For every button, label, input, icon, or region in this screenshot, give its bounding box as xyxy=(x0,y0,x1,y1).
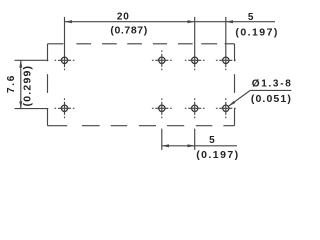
extension line below hole B3 xyxy=(194,129,196,150)
hole A1 circle xyxy=(61,57,67,63)
hole B2 vertical centerline xyxy=(161,102,163,115)
svg-text:7.6: 7.6 xyxy=(6,74,17,93)
hole B1 circle xyxy=(61,105,67,111)
extension line col4 (through hole A4) xyxy=(225,17,227,67)
svg-text:5: 5 xyxy=(248,12,254,23)
hole B1 horizontal centerline xyxy=(58,107,71,109)
svg-text:5: 5 xyxy=(209,135,215,146)
hole B3 horizontal centerline xyxy=(188,107,201,109)
hole A3 vertical centerline xyxy=(194,69,196,71)
hole A1 vertical centerline xyxy=(64,69,66,71)
svg-text:20: 20 xyxy=(117,12,130,23)
hole B4 vertical centerline xyxy=(225,102,227,115)
arrow 20-right / 5-left xyxy=(188,20,195,23)
extension line row2 left xyxy=(15,108,49,110)
dimension line 5/(0.197) bottom xyxy=(162,145,237,147)
arrow bottom-5-right xyxy=(188,144,195,147)
extension line below hole B2 xyxy=(161,129,163,150)
hole B3 circle xyxy=(192,105,198,111)
svg-text:(0.197): (0.197) xyxy=(235,26,278,38)
relay outline (dashed rectangle) top edge xyxy=(48,43,64,45)
hole A4 vertical centerline xyxy=(225,69,227,71)
relay outline right edge xyxy=(234,44,236,62)
hole A2 vertical centerline xyxy=(161,54,163,67)
svg-text:(0.197): (0.197) xyxy=(196,149,239,161)
svg-text:(0.787): (0.787) xyxy=(110,25,147,37)
dimension line 7.6/(0.299) left xyxy=(20,60,22,108)
leader underline xyxy=(250,89,291,91)
hole B2 circle xyxy=(159,105,165,111)
arrow 5-right (outside) xyxy=(226,20,233,23)
hole A2 circle xyxy=(159,57,165,63)
hole B1 vertical centerline xyxy=(64,102,66,115)
hole B3 vertical centerline xyxy=(194,102,196,115)
leader arrowhead at hole B4 xyxy=(228,101,235,107)
svg-text:Ø1.3-8: Ø1.3-8 xyxy=(252,78,293,89)
leader line for hole diameter callout xyxy=(228,90,250,106)
hole B4 circle xyxy=(223,105,229,111)
svg-text:(0.051): (0.051) xyxy=(251,93,292,105)
svg-text:(0.299): (0.299) xyxy=(22,65,34,107)
hole A2 horizontal centerline xyxy=(155,59,168,61)
arrow 7.6-top xyxy=(19,60,22,67)
hole A4 horizontal centerline xyxy=(219,59,232,61)
arrow 7.6-bottom xyxy=(19,101,22,108)
extension line col3 (through hole A3) xyxy=(194,17,196,67)
hole A3 horizontal centerline xyxy=(188,59,201,61)
relay outline bottom edge xyxy=(48,125,68,127)
arrow bottom-5-left xyxy=(162,144,169,147)
extension line row1 left xyxy=(15,59,49,61)
hole A1 horizontal centerline xyxy=(58,59,71,61)
hole A3 circle xyxy=(192,57,198,63)
dimension line 20/(0.787) and 5/(0.197) top xyxy=(65,21,276,23)
relay outline left edge xyxy=(47,44,49,62)
arrow 20-left xyxy=(65,20,72,23)
extension line col1 (through hole A1) xyxy=(64,17,66,67)
hole A4 circle xyxy=(223,57,229,63)
hole B2 horizontal centerline xyxy=(155,107,168,109)
hole B4 horizontal centerline xyxy=(219,107,232,109)
